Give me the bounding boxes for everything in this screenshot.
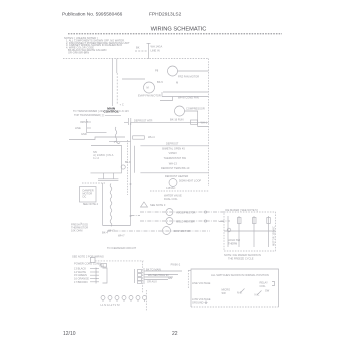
plug prong 7 [143,296,147,300]
condenser fan wire [163,91,209,93]
svg-text:LINE VOLTAGE: LINE VOLTAGE [192,281,211,285]
svg-text:N.C.: N.C. [255,293,260,297]
overload box [191,120,198,124]
ice maker internal wire 3 [253,216,255,247]
svg-text:WH-1: WH-1 [201,120,208,124]
evap fan motor circle [144,82,155,93]
auger motor circle [166,209,173,216]
svg-text:WH NEUTRAL IN: WH NEUTRAL IN [148,273,168,277]
svg-text:AUGER MOTOR: AUGER MOTOR [176,211,196,215]
defrost thermostat wire [140,145,208,147]
legend box [191,269,279,307]
svg-text:10K OHM: 10K OHM [71,229,82,233]
svg-text:SW: SW [222,291,227,295]
power cord entry wire [148,43,150,59]
svg-text:P8: P8 [155,69,159,73]
svg-text:P9 BK-2: P9 BK-2 [171,263,181,267]
harness pin tick c [144,276,146,278]
compressor wire [160,97,173,101]
main control board box [91,146,122,173]
svg-text:DEFROST: DEFROST [166,141,179,145]
svg-text:THERM: THERM [228,242,237,246]
svg-text:GROUND: GROUND [192,300,204,304]
svg-text:COMPRESSOR: COMPRESSOR [186,107,205,111]
svg-text:BK: BK [136,46,140,50]
svg-text:SEE NOTE 3: SEE NOTE 3 [150,203,166,207]
main control harness line L [111,59,113,107]
harness pin tick d [144,279,146,281]
compressor motor circle [175,106,185,116]
svg-text:MICRO: MICRO [222,288,231,292]
harness pin box 1 [138,270,142,273]
power cord line [95,260,144,262]
main control bold label [104,107,119,114]
svg-text:BK-4: BK-4 [102,231,108,235]
damper box [80,187,97,203]
svg-text:BK-16 RUN: BK-16 RUN [170,118,184,122]
legend switch stroke 1 [240,289,245,294]
connector pin tick 5 [96,281,99,283]
harness connector rail [134,269,136,283]
svg-text:115VAC: 115VAC [166,186,175,190]
svg-text:17 BROWN: 17 BROWN [74,280,88,284]
twisted pair bottom wire [103,225,131,227]
svg-text:DEFROST HEATER: DEFROST HEATER [165,174,189,178]
power cord drop dashed [142,261,144,293]
svg-text:SW: SW [265,289,270,293]
harness label wire 5 [90,281,97,283]
svg-text:500W HEAT LOOP: 500W HEAT LOOP [179,179,201,183]
svg-text:BIMETAL OPEN 45: BIMETAL OPEN 45 [162,146,185,150]
plug prong 4 [122,296,126,300]
condenser drop wire [161,92,163,97]
svg-text:BK-5: BK-5 [157,80,163,84]
defrost left leg [134,146,136,173]
defrost sense dashed [127,140,129,195]
svg-text:TO TRANSFORMER [ 24V ]: TO TRANSFORMER [ 24V ] [73,109,106,113]
dispenser line [107,230,210,232]
defrost heater wire [131,121,209,123]
plug prong 6 [136,296,140,300]
svg-text:WH-13: WH-13 [169,161,178,165]
harness pin box 4 [138,281,142,284]
wire arrival pin 2 [204,220,206,222]
harness label wire 1 [90,268,97,270]
outgoing wire 4 [146,279,168,281]
ice maker dashed box [224,212,276,251]
outgoing wire 2 [146,274,178,276]
legend ground symbol [205,301,207,303]
harness label wire 3 [90,274,97,276]
svg-text:M: M [147,86,149,90]
svg-text:P13: P13 [100,263,105,267]
defrost heater contact bar 2 [130,118,132,125]
input tick 2 [87,127,91,129]
auger stub dashed [131,215,141,217]
board right edge part [121,165,125,169]
ice maker heater box [253,218,257,224]
compressor out wire [185,111,198,122]
board stub wire 1 [103,173,105,179]
wire arrival pin 1 [204,211,206,213]
connector pin tick 3 [96,274,99,276]
harness label wire 4 [90,278,97,280]
svg-text:L1 N G L2 T1 T2: L1 N G L2 T1 T2 [101,303,121,307]
connector shell bracket [103,268,108,283]
svg-text:+ C: + C [120,103,124,107]
svg-text:EVAP FAN MOTOR: EVAP FAN MOTOR [138,94,161,98]
cabinet dashed box right edge [208,59,210,187]
outgoing wire 1 [146,270,182,272]
svg-text:VWWV: VWWV [169,151,178,155]
defrost return wire [140,172,208,174]
board stub wire 2 [113,173,115,179]
svg-text:ICE MAKER [ SEE NOTE 5 ]: ICE MAKER [ SEE NOTE 5 ] [225,208,258,212]
svg-text:DEFROST HTR: DEFROST HTR [134,119,153,123]
svg-text:WH-8 COND FAN: WH-8 COND FAN [178,95,199,99]
svg-text:SEE NOTE 2 FOR WIRING: SEE NOTE 2 FOR WIRING [72,255,104,259]
svg-text:POWER CORD CONN: POWER CORD CONN [74,261,101,265]
cabinet dashed box top edge [63,58,209,60]
dispenser motor circle [163,227,171,235]
svg-text:DC: DC [83,195,87,199]
prong drop dashed [145,290,147,311]
svg-text:FPHD2913LS2: FPHD2913LS2 [149,12,182,18]
ice maker thermostat box [238,218,242,224]
title dashed rule [68,33,282,35]
transformer row2 tail wire [105,114,121,116]
defrost heater contact stub [124,121,128,123]
auger motor line [140,211,224,213]
svg-text:HOLD SW: HOLD SW [228,238,241,242]
defrost heater contact bar 1 [128,118,130,125]
ice maker motor box [267,218,271,224]
legend box dashed bottom [191,306,279,308]
svg-text:GN: GN [168,276,172,280]
damper dashed feed [82,182,105,184]
svg-text:13 BLACK: 13 BLACK [74,267,86,271]
svg-text:DISP MOTOR: DISP MOTOR [174,229,190,233]
svg-text:RELAY: RELAY [260,281,269,285]
ice maker sensor circle [227,228,231,232]
svg-text:WATER VALVE: WATER VALVE [164,194,182,198]
svg-text:GND: GND [81,132,87,136]
harness pin tick a [144,270,146,272]
outgoing wire 3 [146,276,173,278]
freezer fan motor circle [168,66,178,76]
warning triangle [141,202,148,207]
condenser return wire [162,96,209,98]
svg-text:AC-N 12V: AC-N 12V [117,109,129,113]
evap fan wire [122,78,145,80]
svg-text:Publication No. 5995580466: Publication No. 5995580466 [62,12,123,18]
transformer input line [86,119,88,133]
svg-text:THE FREEZE CYCLE: THE FREEZE CYCLE [228,256,254,260]
ice maker bus wire [224,230,276,232]
power cord stub symbol [101,264,107,268]
svg-text:DEFROST TERM BK-10: DEFROST TERM BK-10 [161,166,190,170]
power cord dash lead [135,50,147,52]
harness pin tick b [144,274,146,276]
svg-text:b c d: b c d [93,156,99,160]
notes block [64,36,130,54]
defrost loop circle [169,179,177,187]
ice maker internal wire 4 [268,216,270,247]
input tick 1 [87,121,91,123]
board gnd link wire [87,132,107,134]
svg-text:TOP TRANSFORMER [ ] ]: TOP TRANSFORMER [ ] ] [74,113,105,117]
plug prong 5 [129,296,133,300]
legend relay bracket [272,282,275,286]
center bus wire [130,122,132,225]
ice maker mold line [140,220,230,222]
svg-text:ALL SWITCHES SHOWN IN NORMAL P: ALL SWITCHES SHOWN IN NORMAL POSITION [211,273,269,277]
main control harness line N dashed part [116,73,118,105]
node junction dot 2 [130,215,132,217]
defrost fuse box [133,136,145,139]
harness label wire 2 [90,271,97,273]
svg-text:WH-7: WH-7 [118,234,125,238]
board coil squiggle [115,127,117,141]
svg-text:DUAL COIL: DUAL COIL [164,197,178,201]
svg-text:BK-9: BK-9 [125,161,131,164]
svg-text:MOTOR 120VAC: MOTOR 120VAC [272,226,276,246]
svg-text:WH 14GA: WH 14GA [151,45,163,49]
svg-text:COIL: COIL [260,284,267,288]
svg-text:WIRING SCHEMATIC: WIRING SCHEMATIC [151,26,207,32]
twisted pair coil [110,184,112,227]
harness connector rail 2 [143,268,145,284]
svg-text:INPUT: INPUT [80,120,88,124]
board link wire [109,140,131,142]
svg-text:TO ICEMAKER CIRCUIT: TO ICEMAKER CIRCUIT [107,246,136,250]
svg-text:SEE NOTE 4: SEE NOTE 4 [83,202,99,206]
mold heater circle [166,218,173,225]
connector pin tick 2 [96,271,99,273]
compressor step wire [198,122,209,127]
svg-text:FRZ FAN MOTOR: FRZ FAN MOTOR [178,75,199,79]
ice maker internal wire 2 [238,216,240,247]
ground run wire [69,137,125,140]
harness pin box 2 [138,274,142,277]
svg-text:WH-3: WH-3 [108,229,115,233]
svg-text:22: 22 [172,331,178,337]
connector header pin rail [95,268,97,284]
connector pin tick 1 [96,268,99,270]
svg-text:M: M [176,81,178,85]
freezer fan motor feed wire [178,70,209,72]
plug prong 1 [101,296,105,300]
svg-text:MOLD HEATER: MOLD HEATER [176,220,195,224]
svg-text:LINE IN: LINE IN [151,49,160,53]
legend feed corner [188,269,191,271]
plug prong 3 [115,296,119,300]
power cord top tick [147,43,151,45]
svg-text:12/10: 12/10 [63,331,76,337]
board double wire b [98,179,118,181]
connector pin tick 4 [96,278,99,280]
power cord plug symbol [91,258,96,263]
legend switch stroke 2 [257,291,262,296]
svg-text:OR AUX: OR AUX [147,279,157,283]
legend feed dashed vertical [187,270,189,288]
cabinet dashed box partial bottom edge [150,190,209,192]
board double wire a [98,178,118,180]
ice maker inlet stub [219,221,224,223]
board top symbol [114,142,120,144]
twisted pair left [102,183,104,226]
svg-text:BK TO MAIN: BK TO MAIN [146,267,161,271]
svg-text:OR-ORN BR-BRN: OR-ORN BR-BRN [68,50,89,54]
harness pin box 3 [138,278,142,281]
ice maker internal wire 1 [227,216,229,247]
node junction dot 1 [130,183,132,185]
svg-text:WH-4: WH-4 [148,135,155,139]
svg-text:N.O.: N.O. [237,291,243,295]
plug prong 2 [108,296,112,300]
main control harness line N [116,59,118,74]
svg-text:LOW VOLTAGE: LOW VOLTAGE [192,297,211,301]
svg-text:LINE: LINE [75,126,81,130]
svg-text:THERMOSTAT SW: THERMOSTAT SW [164,156,187,160]
